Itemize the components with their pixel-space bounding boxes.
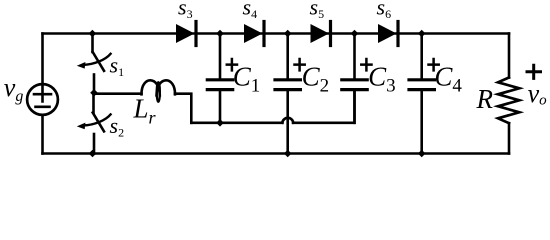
voltage source plus sign <box>34 87 51 102</box>
capacitor C4 top wire <box>420 34 423 79</box>
diode S4 triangle <box>244 24 263 43</box>
node dot bottom C4 <box>418 150 426 158</box>
node dot bottom S2 <box>89 150 97 158</box>
node dot junction A <box>90 89 98 97</box>
svg-text:C2: C2 <box>302 61 330 96</box>
switch S1 blade <box>93 52 104 71</box>
node dot top C3 <box>351 30 359 38</box>
capacitor C2 bottom wire <box>286 91 289 154</box>
capacitor C1 plus sign <box>227 59 237 70</box>
svg-text:s1: s1 <box>110 53 125 80</box>
capacitor C4 plus sign <box>429 59 439 70</box>
diode S3 triangle <box>176 24 195 43</box>
switch S2 blade <box>93 113 104 132</box>
svg-text:Lr: Lr <box>133 94 157 128</box>
diode S5 triangle <box>311 24 330 43</box>
switch S2 arrowhead <box>77 123 86 130</box>
capacitor C3 plus sign <box>361 59 371 70</box>
wire inductor feed <box>94 92 142 95</box>
svg-text:vo: vo <box>528 79 548 109</box>
capacitor C2 top wire <box>286 34 289 79</box>
node dot bottom C2 <box>284 150 292 158</box>
wire left vertical lower <box>41 115 44 154</box>
diode S4 cathode bar <box>262 22 265 46</box>
voltage source v_g circle <box>27 84 58 115</box>
resistor R top wire <box>508 34 511 78</box>
wire hop over C2 branch <box>282 118 293 123</box>
svg-text:s5: s5 <box>310 0 325 21</box>
switch S1 arrow arc <box>83 54 111 65</box>
voltage source minus sign <box>36 106 50 109</box>
wire middle rail right segment <box>293 91 355 123</box>
svg-text:C1: C1 <box>233 61 261 96</box>
node dot top C1 <box>216 30 224 38</box>
inductor Lr crossing eye <box>157 82 160 102</box>
svg-text:C3: C3 <box>368 61 396 96</box>
capacitor C2 plus sign <box>295 59 305 70</box>
svg-text:s2: s2 <box>110 113 125 140</box>
capacitor C3 bottom wire <box>353 91 356 123</box>
switch S2 bottom wire <box>93 134 96 154</box>
capacitor C3 top wire <box>353 34 356 79</box>
wire inductor to corner <box>175 94 191 123</box>
capacitor C4 plates <box>409 80 434 90</box>
output plus sign <box>527 65 541 78</box>
diode S6 triangle <box>378 24 397 43</box>
node dot middle rail C1 <box>216 119 224 127</box>
capacitor C1 plates <box>207 80 232 90</box>
wire middle rail left segment <box>191 122 282 125</box>
svg-text:vg: vg <box>4 73 24 105</box>
capacitor C1 bottom wire <box>219 91 222 123</box>
svg-text:s6: s6 <box>377 0 392 21</box>
diode S6 cathode bar <box>396 22 399 46</box>
node dot top C2 <box>284 30 292 38</box>
wire top rail <box>43 32 510 35</box>
resistor R zigzag <box>498 78 519 124</box>
capacitor C3 plates <box>342 80 367 90</box>
node dot top S1 <box>89 30 97 38</box>
capacitor C1 top wire <box>219 34 222 79</box>
svg-text:R: R <box>476 84 494 114</box>
switch S1 top wire <box>91 34 94 53</box>
diode S3 cathode bar <box>194 22 197 46</box>
svg-text:C4: C4 <box>434 61 462 96</box>
switch S2 top wire <box>92 93 95 113</box>
resistor R bottom wire <box>508 123 511 153</box>
diode S5 cathode bar <box>329 22 332 46</box>
capacitor C2 plates <box>275 80 300 90</box>
wire bottom rail <box>43 152 510 155</box>
switch S1 bottom wire <box>93 75 96 93</box>
switch S1 arrowhead <box>77 62 86 69</box>
node dot top C4 <box>418 30 426 38</box>
inductor Lr loops <box>141 80 175 95</box>
svg-text:s3: s3 <box>178 0 193 21</box>
svg-text:s4: s4 <box>243 0 258 21</box>
switch S2 arrow arc <box>83 114 111 125</box>
wire left vertical upper <box>41 34 44 85</box>
capacitor C4 bottom wire <box>420 91 423 154</box>
